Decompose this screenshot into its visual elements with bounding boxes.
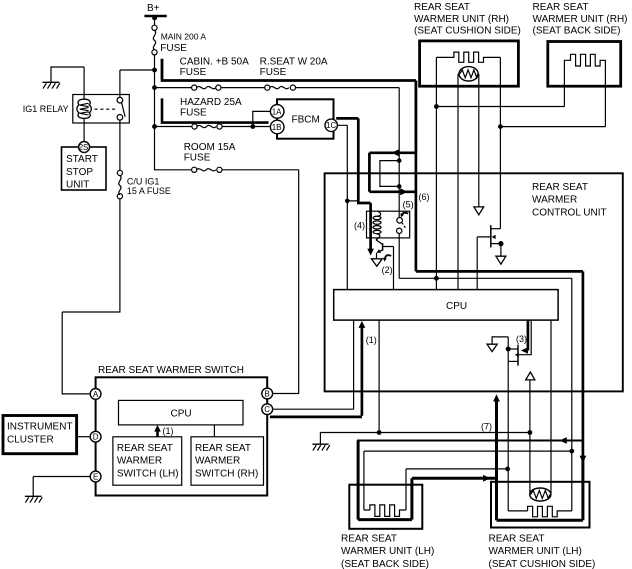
coil (4) spring	[373, 211, 381, 240]
relay switch (5) contacts	[397, 213, 409, 234]
pin 1B	[270, 120, 284, 134]
wire to IG1 relay switch	[120, 70, 155, 97]
thermistor RH cushion	[459, 67, 478, 81]
ground (7) symbol	[312, 433, 329, 451]
svg-text:B+: B+	[147, 3, 160, 14]
svg-text:(7): (7)	[481, 422, 492, 432]
wire thick loop box (6)	[369, 152, 583, 456]
svg-text:15 A FUSE: 15 A FUSE	[127, 186, 171, 196]
box REAR SEAT WARMER UNIT (RH) (SEAT BACK SIDE)	[533, 2, 628, 86]
wire HAZARD thick feed	[161, 98, 269, 122]
resistor heater element RH cushion	[436, 52, 500, 62]
arrow left on return bus	[560, 437, 567, 444]
arrow (1) into CPU from switch	[270, 327, 362, 417]
arrow right on loop bottom	[400, 188, 407, 195]
node 1A branch dot	[250, 124, 255, 129]
wire triangle line down to thermistor LH	[529, 380, 531, 493]
box REAR SEAT WARMER SWITCH (RH)	[191, 437, 264, 485]
svg-text:2S: 2S	[79, 143, 89, 152]
wire C thin to CPU	[273, 320, 354, 409]
svg-text:INSTRUMENT: INSTRUMENT	[7, 422, 73, 433]
svg-text:IG1 RELAY: IG1 RELAY	[23, 104, 69, 114]
node 1C branch dot	[345, 199, 350, 204]
fuse MAIN 200 A	[152, 25, 206, 55]
wire CPU to ground line (7)	[378, 320, 380, 432]
svg-text:FUSE: FUSE	[260, 67, 287, 78]
svg-text:HAZARD 25A: HAZARD 25A	[180, 97, 242, 108]
box REAR SEAT WARMER UNIT (LH) (SEAT CUSHION SIDE)	[489, 482, 596, 569]
node dot at switch-route junction	[434, 276, 439, 281]
svg-text:(SEAT CUSHION SIDE): (SEAT CUSHION SIDE)	[414, 26, 521, 37]
arrow right on thick link	[483, 475, 490, 482]
wire LH back heater-right link	[406, 469, 508, 510]
wire RH back left terminal to junction	[436, 106, 564, 108]
svg-text:REAR SEAT: REAR SEAT	[341, 533, 397, 544]
wire R.SEAT fuse down to relay contact	[398, 88, 400, 218]
wire ground line (7)	[320, 432, 530, 434]
svg-text:(SEAT CUSHION SIDE): (SEAT CUSHION SIDE)	[489, 559, 596, 569]
box CPU (control unit)	[334, 290, 558, 321]
svg-text:A: A	[93, 390, 99, 399]
wire E to ground	[33, 477, 90, 497]
node dot on (7) line	[528, 430, 533, 435]
box REAR SEAT WARMER SWITCH (LH)	[113, 437, 182, 485]
svg-text:1A: 1A	[272, 107, 282, 116]
svg-text:REAR SEAT WARMER SWITCH: REAR SEAT WARMER SWITCH	[98, 365, 244, 376]
svg-text:(SEAT BACK SIDE): (SEAT BACK SIDE)	[341, 559, 429, 569]
wire thick cushion left riser with up arrow	[495, 401, 498, 521]
wire LH cushion comb left drop	[508, 469, 527, 511]
box START STOP UNIT	[62, 147, 107, 191]
svg-text:(1): (1)	[163, 426, 174, 436]
svg-text:REAR SEAT: REAR SEAT	[489, 533, 545, 544]
node open triangle up near (3)	[526, 372, 535, 380]
svg-text:(4): (4)	[354, 221, 365, 231]
svg-text:ROOM 15A: ROOM 15A	[184, 142, 236, 153]
wire inner sense loop	[380, 161, 399, 187]
terminal C	[262, 404, 273, 415]
box REAR SEAT WARMER UNIT (LH) (SEAT BACK SIDE)	[341, 485, 434, 569]
svg-text:START: START	[66, 154, 98, 165]
node junction dots on main line	[152, 68, 157, 73]
ground (bottom left)	[25, 496, 42, 502]
svg-text:R.SEAT W 20A: R.SEAT W 20A	[260, 57, 328, 68]
svg-text:CABIN. +B 50A: CABIN. +B 50A	[180, 57, 250, 68]
fuse R.SEAT W 20A	[221, 57, 399, 91]
svg-text:(SEAT BACK SIDE): (SEAT BACK SIDE)	[533, 26, 621, 37]
svg-text:(3): (3)	[516, 334, 527, 344]
fuse ROOM 15A	[155, 142, 299, 172]
svg-text:D: D	[93, 433, 99, 442]
wire 1C thick to relay coil	[336, 118, 370, 249]
ground (top left)	[43, 67, 85, 95]
svg-text:REAR SEAT: REAR SEAT	[195, 443, 251, 454]
node B+	[144, 3, 166, 20]
svg-text:WARMER: WARMER	[532, 195, 577, 206]
wire CABIN thick feed	[161, 59, 416, 152]
node dot (7)-CPU	[377, 430, 382, 435]
wire relay switch bottom to route	[399, 234, 572, 452]
node dot RH right link	[498, 124, 503, 129]
box CPU (switch)	[119, 400, 244, 425]
wire IG1 switch to C/U fuse	[119, 120, 121, 170]
relay K1 coil+switch box (4)(5)	[354, 199, 414, 238]
wire RH thermistor right down to triangle	[478, 74, 480, 207]
svg-text:SWITCH (LH): SWITCH (LH)	[117, 468, 179, 479]
thermistor LH cushion	[530, 488, 551, 501]
arrow down on thick right drop	[580, 456, 587, 463]
svg-text:WARMER UNIT (RH): WARMER UNIT (RH)	[533, 14, 628, 25]
svg-text:REAR SEAT: REAR SEAT	[533, 2, 589, 13]
fuse HAZARD 25A	[155, 97, 270, 129]
svg-text:C: C	[264, 405, 270, 414]
svg-text:REAR SEAT: REAR SEAT	[532, 182, 588, 193]
svg-text:(5): (5)	[403, 199, 414, 209]
arrow down into (4) coil path	[367, 249, 374, 256]
svg-text:UNIT: UNIT	[66, 180, 89, 191]
svg-text:FBCM: FBCM	[292, 114, 320, 125]
relay IG1 RELAY	[23, 95, 130, 142]
node dot link	[505, 467, 510, 472]
wire RH back right terminal to junction	[500, 126, 605, 128]
wire CPU to thermistor LH right	[550, 320, 552, 493]
svg-text:REAR SEAT: REAR SEAT	[414, 2, 470, 13]
terminal B	[262, 388, 273, 399]
svg-text:MAIN 200 A: MAIN 200 A	[161, 32, 207, 42]
wire thick cushion bottom and right riser	[497, 455, 583, 520]
wire instrument cluster to D	[77, 436, 91, 438]
svg-text:CPU: CPU	[171, 409, 192, 420]
terminal E	[90, 471, 101, 482]
node dot sense right	[569, 449, 574, 454]
terminal D	[90, 431, 101, 442]
box INSTRUMENT CLUSTER	[3, 416, 77, 454]
svg-text:FUSE: FUSE	[180, 67, 207, 78]
svg-text:STOP: STOP	[66, 167, 93, 178]
coil of IG1 relay	[83, 95, 85, 100]
svg-text:FUSE: FUSE	[184, 153, 211, 164]
pin 1A	[270, 105, 284, 119]
fuse CABIN. +B 50A	[155, 57, 250, 91]
wire B+ main vertical	[154, 18, 156, 168]
svg-text:WARMER: WARMER	[117, 456, 162, 467]
node dot RH left link	[434, 104, 439, 109]
mosfet Q3 (3)	[487, 320, 531, 366]
svg-text:WARMER UNIT (LH): WARMER UNIT (LH)	[341, 546, 434, 557]
svg-text:CONTROL UNIT: CONTROL UNIT	[532, 207, 607, 218]
svg-text:WARMER UNIT (RH): WARMER UNIT (RH)	[414, 14, 509, 25]
wire to 1A	[253, 111, 270, 126]
svg-text:1B: 1B	[272, 123, 282, 132]
wire C/U fuse to terminal A	[62, 199, 120, 394]
node open triangle under thermistor-right wire	[474, 207, 484, 215]
mosfet Q2	[477, 225, 506, 289]
wire mosfet3 source down to bottom junction	[507, 361, 509, 469]
wire thick U through LH back box	[358, 441, 412, 520]
box REAR SEAT WARMER UNIT (RH) (SEAT CUSHION SIDE)	[414, 2, 521, 86]
arrow (1) switch LH to CPU	[156, 431, 159, 437]
wire cushion comb right riser	[571, 451, 573, 511]
svg-text:REAR SEAT: REAR SEAT	[117, 443, 173, 454]
wire thick return bus (to LH back unit)	[357, 440, 583, 442]
svg-text:E: E	[93, 472, 98, 481]
box REAR SEAT WARMER SWITCH	[96, 365, 268, 495]
terminal 2S	[79, 142, 90, 153]
transistor Q1 (2)	[371, 240, 393, 290]
node dot loop bottom	[397, 184, 402, 189]
resistor heater element LH cushion	[528, 506, 572, 517]
svg-text:FUSE: FUSE	[160, 43, 187, 54]
relay dashed link	[95, 108, 117, 110]
wire thick link to cushion box	[412, 477, 497, 480]
relay switch contacts	[117, 97, 123, 103]
fuse C/U IG1 15 A	[117, 170, 171, 199]
svg-text:CPU: CPU	[446, 301, 467, 312]
wire ROOM fuse to terminal B	[273, 170, 299, 394]
arrow left on loop top	[392, 149, 399, 156]
svg-text:(1): (1)	[366, 335, 377, 345]
pin 1C	[325, 119, 337, 131]
svg-text:WARMER UNIT (LH): WARMER UNIT (LH)	[489, 546, 582, 557]
svg-text:CLUSTER: CLUSTER	[7, 434, 54, 445]
svg-text:WARMER: WARMER	[195, 456, 240, 467]
resistor heater element RH back	[564, 54, 605, 126]
box REAR SEAT WARMER CONTROL UNIT	[325, 173, 623, 391]
svg-text:SWITCH (RH): SWITCH (RH)	[195, 468, 258, 479]
resistor heater element LH back	[370, 505, 406, 517]
wire RH heater right down to transistor drain	[499, 57, 501, 228]
wire 1C thin to CPU	[337, 125, 357, 289]
svg-text:(2): (2)	[382, 265, 393, 275]
wire LH back heater-left sense	[364, 451, 572, 510]
wire RH heater left down to CPU	[435, 57, 437, 289]
node dot loop top	[397, 158, 402, 163]
terminal A	[90, 389, 101, 400]
svg-text:(6): (6)	[419, 192, 430, 202]
wire switch RH to CPU	[213, 425, 215, 437]
svg-text:1C: 1C	[326, 121, 336, 130]
wire RH thermistor left down to CPU	[457, 74, 459, 290]
svg-text:FUSE: FUSE	[180, 108, 207, 119]
op-amp U1 FBCM module	[277, 99, 334, 138]
svg-text:B: B	[264, 389, 269, 398]
